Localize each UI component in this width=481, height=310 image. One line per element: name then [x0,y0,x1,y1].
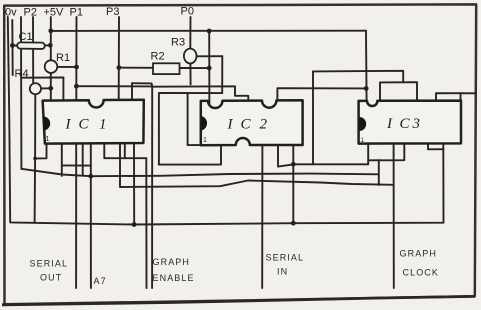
svg-text:P0: P0 [181,6,194,18]
wire rail B to IC3 [120,143,394,187]
frame bottom heavy stroke [2,296,475,304]
wire IC2 pin to +5V drop [277,88,366,100]
wire rail A (serial-out net) [21,169,378,176]
svg-text:C: C [241,117,252,133]
resistor R4 [30,83,41,94]
svg-text:P3: P3 [106,6,119,18]
svg-text:I: I [386,116,393,132]
svg-text:ENABLE: ENABLE [153,273,195,283]
wire down to ground rail [34,158,37,222]
resistor R2 [153,63,180,74]
wire R3 bottom [189,62,191,84]
op IC1 body [43,100,144,144]
wire 0v stub to C1 [11,20,13,75]
svg-text:CLOCK: CLOCK [403,268,440,278]
wire R2 right [180,67,210,69]
node +5V IC3 drop [364,86,369,91]
svg-text:OUT: OUT [40,273,62,283]
wire drop x63 to IC1 [62,78,64,101]
svg-text:+5V: +5V [44,7,65,19]
op IC2 body [201,100,303,145]
node R1-P1 [74,65,79,70]
wire +5V rail horizontal [51,30,366,32]
wire IC1 pin x82 to rail A [82,143,84,175]
wire IC1 pin x134 to ground rail [133,143,135,224]
wire drop x222 [221,56,223,93]
resistor R3 [184,49,197,64]
wire U loop IC3 bottom [368,144,404,161]
svg-text:1: 1 [99,117,107,133]
svg-text:R1: R1 [56,52,70,64]
wire R2 to +5V rail [208,31,210,104]
wire IC2 right riser [312,71,314,164]
svg-text:C: C [400,116,411,132]
node R2 right [207,66,212,71]
op IC3 body [359,101,461,144]
wire P0 vertical to R3 [189,17,191,48]
wire A7 line 2 [90,143,92,288]
wire IC3 pin jog x428 [428,144,444,150]
wire graph clock vertical [393,144,395,288]
wire +5V below R1 to IC1 [50,73,52,100]
wire riser x132 to IC1 [131,83,133,100]
wire R4 right to +5V [41,87,51,89]
wire IC3 top right to frame [461,93,476,101]
svg-text:I: I [65,117,72,133]
wire H164 horizontal [293,144,368,165]
svg-text:1: 1 [203,137,207,144]
wire drop x187 to IC2 corner [188,93,201,145]
node ground rail x293 [291,221,296,226]
wire IC3 top loop [380,82,417,101]
wire R3 right [197,55,223,57]
node C1 left [10,43,15,48]
wire IC2 pin x281 [278,145,293,167]
wire graph enable 1 vertical [145,158,147,288]
wire R4 box top [21,77,63,79]
svg-text:GRAPH: GRAPH [153,257,191,267]
node P3-R2 [117,65,122,70]
wire P1 node to graph-enable line [76,85,152,87]
svg-text:IN: IN [277,267,288,277]
svg-text:SERIAL: SERIAL [30,259,69,269]
svg-text:A7: A7 [94,276,107,286]
wire P3 to R2 [119,67,153,69]
wire graph enable 2 long vertical [151,86,153,288]
svg-text:P1: P1 [70,7,83,19]
wire riser x378 joining rails [378,160,380,185]
node R2 top junction [207,29,212,34]
svg-text:R4: R4 [15,68,29,80]
wire R1 right to P1 [57,66,76,68]
svg-text:R2: R2 [151,51,165,63]
svg-text:3: 3 [412,116,421,132]
wire U loop IC1 bottom [104,143,146,158]
wire top link to IC3 [313,71,403,83]
wire P3 vertical [118,17,120,100]
wire serial-in vertical [261,145,263,288]
node rail A x90 [88,174,93,179]
svg-text:C1: C1 [19,31,33,43]
wire IC1 pin x61 down [61,143,63,176]
wire IC2 pin x293 to ground rail [292,145,294,223]
wire H1 horizontal to IC2 [132,83,248,101]
capacitor C1 [17,42,45,49]
IC1 pin1 dot [43,117,50,131]
wire P2a vertical [20,17,22,169]
wire IC2 pin x221 [159,145,221,165]
svg-text:0v: 0v [5,7,17,19]
wire 0v vertical + ground rail + riser to IC3 pin [8,17,444,225]
IC3 pin1 dot [359,117,366,131]
wire +5V drop to IC3 notch [365,31,368,104]
wire +5V vertical upper [50,17,52,60]
wire IC2 feed over-line [159,93,222,165]
node R4 bottom tee [33,157,37,161]
svg-text:C: C [79,117,90,133]
node C1 right [48,43,53,48]
wire IC1 pin x124 [124,143,126,158]
svg-text:P2: P2 [24,7,37,19]
wire to IC1 pin1 [35,143,46,158]
wire C1 left lead [12,45,17,47]
wire IC3 stub x436 [436,93,461,101]
svg-text:R3: R3 [171,37,185,49]
wire U loop IC1 left [62,164,91,166]
node ground rail x134 [132,222,137,227]
node +5V rail junction [48,28,53,33]
wire A7 line 1 [75,143,77,288]
IC2 pin1 dot [202,116,208,131]
node R4-+5V [48,86,53,91]
wire R4 bottom down [34,94,36,158]
node P1 lower [74,84,79,89]
wire P2b vertical to R4 [32,17,34,83]
wire C1 right lead [44,44,50,46]
svg-text:I: I [227,117,234,133]
svg-text:SERIAL: SERIAL [266,253,305,263]
svg-text:1: 1 [46,136,50,143]
svg-text:GRAPH: GRAPH [400,249,438,259]
resistor R1 [45,60,58,73]
node H164 x293 [291,162,296,167]
svg-text:2: 2 [260,117,268,133]
wire P1 vertical [75,17,77,100]
